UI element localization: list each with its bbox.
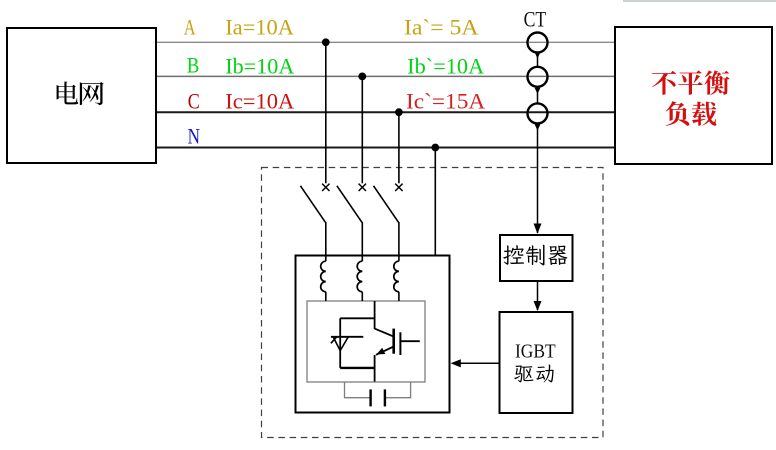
svg-text:Ia`= 5A: Ia`= 5A — [404, 14, 479, 39]
svg-text:Ia=10A: Ia=10A — [225, 14, 294, 39]
svg-text:N: N — [188, 123, 200, 148]
svg-text:B: B — [187, 53, 200, 78]
svg-text:C: C — [188, 88, 200, 113]
svg-text:IGBT: IGBT — [515, 340, 556, 362]
svg-text:A: A — [184, 14, 196, 39]
svg-text:CT: CT — [524, 6, 547, 31]
svg-text:Ic=10A: Ic=10A — [225, 88, 294, 113]
svg-text:Ib`=10A: Ib`=10A — [407, 54, 484, 79]
svg-text:Ib=10A: Ib=10A — [225, 54, 294, 79]
svg-text:Ic`=15A: Ic`=15A — [406, 88, 485, 113]
